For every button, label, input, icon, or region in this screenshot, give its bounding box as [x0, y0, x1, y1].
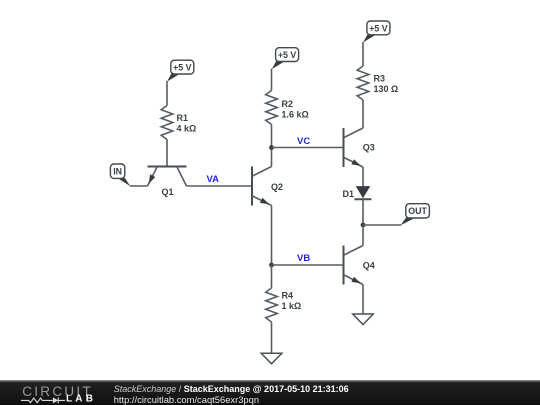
resistor R1 — [161, 106, 196, 140]
svg-text:LAB: LAB — [66, 393, 96, 404]
svg-text:130 Ω: 130 Ω — [374, 84, 399, 94]
resistor R3 — [357, 66, 398, 100]
svg-text:Q1: Q1 — [162, 187, 174, 197]
wire VA: Q1 collector to Q2 base — [187, 185, 253, 187]
wire Q2 emitter to VB node — [271, 206, 273, 266]
node VC junction dot — [269, 145, 274, 150]
OUT node junction dot — [361, 223, 366, 228]
svg-text:VA: VA — [207, 174, 220, 185]
+5V supply above R2 — [272, 48, 299, 69]
transistor Q4 — [344, 246, 375, 285]
wire R2 to VC node — [271, 125, 273, 148]
svg-text:D1: D1 — [342, 189, 354, 199]
svg-text:1 kΩ: 1 kΩ — [282, 301, 302, 311]
terminal OUT — [400, 204, 429, 226]
wire +5V to R1 — [166, 81, 168, 106]
ground under Q4 — [353, 314, 374, 325]
svg-text:Q3: Q3 — [363, 143, 375, 153]
transistor Q2 — [252, 167, 283, 206]
+5V supply above R3 — [363, 21, 390, 42]
resistor R2 — [266, 91, 309, 125]
svg-text:1.6 kΩ: 1.6 kΩ — [282, 110, 309, 120]
wire IN to Q1 emitter — [130, 185, 148, 187]
wire Q3 emitter to D1 — [362, 167, 364, 186]
wire +5V to R3 — [362, 42, 364, 66]
transistor Q3 — [344, 128, 375, 167]
footer line 2 — [114, 394, 259, 405]
wire +5V to R2 — [271, 69, 273, 91]
svg-text:Q2: Q2 — [271, 182, 283, 192]
wire VB: node to Q4 base — [272, 264, 344, 266]
transistor Q1 — [148, 167, 187, 197]
footer bar — [0, 380, 540, 405]
svg-text:+5 V: +5 V — [278, 50, 296, 60]
wire R1 to Q1 base — [166, 140, 168, 167]
node VB junction dot — [269, 263, 274, 268]
diode D1 — [342, 186, 371, 199]
svg-text:R1: R1 — [177, 113, 189, 123]
svg-text:VC: VC — [297, 136, 310, 147]
svg-text:Q4: Q4 — [363, 260, 375, 270]
wire R3 to Q3 collector — [362, 100, 364, 128]
wire Q4 emitter to ground — [362, 285, 364, 315]
footer line 1 — [114, 384, 349, 394]
wire VB node to R4 — [271, 265, 273, 288]
ground under R4 — [261, 353, 282, 364]
svg-text:R4: R4 — [282, 291, 294, 301]
wire R4 to ground — [271, 322, 273, 353]
CircuitLab logo — [0, 380, 110, 405]
svg-text:IN: IN — [113, 167, 122, 177]
wire OUT node to terminal — [363, 224, 401, 226]
wire D1 to OUT node — [362, 199, 364, 225]
svg-text:R2: R2 — [282, 99, 294, 109]
wire VC: node to Q3 base — [272, 147, 344, 149]
svg-text:4 kΩ: 4 kΩ — [177, 124, 197, 134]
resistor R4 — [266, 288, 302, 322]
wire OUT node to Q4 collector — [362, 225, 364, 246]
svg-text:VB: VB — [297, 253, 310, 264]
svg-text:+5 V: +5 V — [173, 63, 191, 73]
svg-text:+5 V: +5 V — [369, 23, 387, 33]
svg-text:OUT: OUT — [408, 206, 427, 216]
wire Q2 collector to VC node — [271, 148, 273, 167]
+5V supply above R1 — [167, 60, 194, 81]
svg-text:R3: R3 — [374, 74, 386, 84]
terminal IN — [110, 164, 130, 186]
